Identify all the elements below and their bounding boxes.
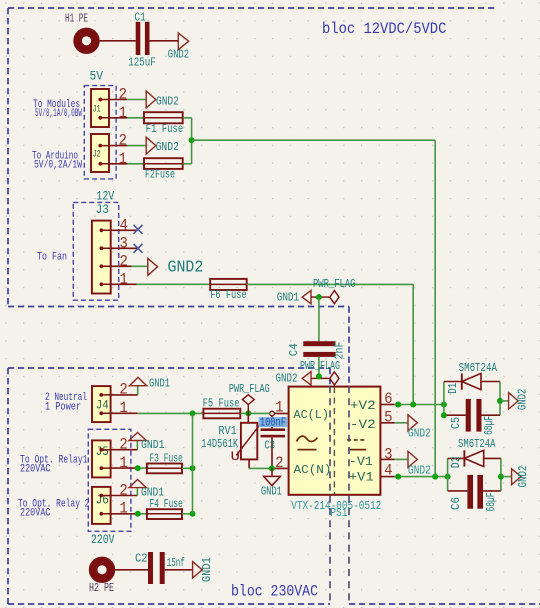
wire J5.1 to F3: [138, 467, 147, 469]
pin J2.2 stub: [109, 145, 127, 147]
svg-text:D1: D1: [447, 383, 460, 394]
global label GND2 (top): [168, 33, 189, 61]
pin J3.1 stub: [111, 283, 137, 285]
junction F1/F2: [189, 137, 195, 143]
dashed group box J3: [73, 202, 118, 300]
junction +V1/5V rail: [432, 474, 438, 480]
svg-text:C5: C5: [450, 417, 463, 429]
wire D2/C6 right rail: [500, 458, 502, 491]
svg-text:4: 4: [120, 216, 128, 234]
varistor RV1 14D561K: [201, 413, 260, 468]
junction right rail GND2 (D2): [498, 474, 504, 480]
wire pin3 to GND2: [395, 458, 408, 460]
wire J3.1 to F6: [137, 283, 211, 285]
wire F5 to PS1 pin1: [240, 412, 269, 414]
global label GND2 (D1/C5): [509, 389, 530, 411]
wire 5V to right: [192, 139, 436, 141]
power symbol GND1 (down triangle): [261, 468, 282, 498]
connector J4: [92, 386, 111, 422]
svg-text:C2: C2: [135, 551, 148, 565]
svg-text:125uF: 125uF: [128, 56, 156, 70]
svg-text:68µF: 68µF: [485, 492, 498, 511]
global label GND1 (node above C4): [277, 290, 319, 304]
junction +V1/D2 rail: [445, 474, 451, 480]
svg-text:+V1: +V1: [349, 470, 374, 485]
svg-text:1: 1: [119, 500, 127, 518]
no-connect X J3.3: [134, 244, 143, 253]
wire 5V rail vertical F1-F2: [191, 118, 193, 164]
bloc 12VDC/5VDC bottom edge right part: [349, 603, 540, 605]
svg-text:2: 2: [119, 86, 127, 104]
junction GND2/C4: [316, 373, 322, 379]
svg-text:3: 3: [120, 234, 128, 252]
svg-text:5V/0,1A/0,0BW: 5V/0,1A/0,0BW: [35, 108, 82, 120]
svg-text:C6: C6: [450, 497, 463, 510]
svg-text:6: 6: [384, 390, 392, 408]
pin PS1.2: [272, 467, 289, 469]
bloc 230VAC left edge: [7, 368, 9, 604]
pin J2.1 stub: [109, 163, 127, 165]
svg-text:J3: J3: [96, 202, 109, 217]
svg-text:220V: 220V: [91, 533, 115, 547]
bloc boundary horizontal y=306: [8, 306, 349, 308]
svg-text:H2 PE: H2 PE: [89, 582, 114, 595]
junction AC(N)/C3/GND1: [269, 465, 275, 471]
svg-text:1: 1: [119, 399, 127, 417]
junction GND1/C4: [316, 294, 322, 300]
svg-text:J5: J5: [96, 444, 109, 459]
svg-text:C1: C1: [134, 10, 145, 24]
wire GND1 node to C4: [318, 297, 320, 341]
wire F2 to rail: [183, 163, 192, 165]
wire +V1 net: [395, 476, 448, 478]
svg-text:GND1: GND1: [200, 557, 214, 582]
svg-text:2: 2: [119, 436, 127, 454]
global label GND2 (pin5): [408, 415, 431, 441]
svg-text:bloc 230VAC: bloc 230VAC: [231, 583, 318, 601]
dashed group box J1/J2: [84, 86, 116, 179]
junction J6.1: [135, 511, 141, 517]
no-connect X J3.4: [134, 225, 143, 234]
svg-text:AC(N): AC(N): [294, 463, 332, 477]
bloc 230VAC right edge x=330 (over PS1 body): [329, 386, 331, 604]
pin J1.1 stub: [109, 117, 127, 119]
connector J1: [91, 89, 109, 127]
global label GND2 (pin3): [408, 451, 431, 477]
svg-text:SM6T24A: SM6T24A: [458, 438, 496, 451]
mounting hole H1: [65, 13, 95, 50]
capacitor C4 2nF: [287, 341, 347, 359]
wire F4 to L rail: [182, 513, 193, 515]
fuse F1: [144, 112, 183, 136]
global label GND1 (H2, rotated): [193, 557, 215, 582]
wire +V2 net: [395, 404, 444, 406]
svg-text:To Fan: To Fan: [37, 251, 67, 263]
wire C2 to GND1: [165, 569, 193, 571]
global label GND2 (J1 pin2): [146, 91, 179, 108]
svg-text:-V2: -V2: [350, 417, 376, 432]
svg-text:PS1: PS1: [330, 507, 347, 520]
svg-text:100nF: 100nF: [260, 415, 286, 429]
pin J5.2 stub: [111, 449, 138, 451]
pin PS1.5: [380, 422, 394, 424]
pin PS1.1 with end circle: [270, 411, 289, 416]
svg-text:GND2: GND2: [408, 427, 431, 440]
svg-text:GND1: GND1: [149, 376, 170, 390]
svg-text:GND1: GND1: [261, 484, 282, 498]
wire rail to GND2 (D2): [501, 476, 512, 478]
svg-text:2: 2: [119, 481, 127, 499]
svg-text:H1 PE: H1 PE: [65, 13, 88, 26]
junction F4 / L rail: [190, 511, 196, 517]
bloc 230VAC top edge: [8, 367, 330, 369]
TVS diode D2 SM6T24A: [448, 438, 501, 491]
global label GND1 (J5 pin2, up): [129, 432, 165, 452]
svg-text:GND2: GND2: [168, 259, 204, 278]
svg-text:2: 2: [119, 132, 127, 150]
junction right rail GND2: [497, 398, 503, 404]
svg-text:GND1: GND1: [141, 438, 165, 452]
dashed group box J5/J6: [88, 429, 131, 531]
capacitor C3 leads: [271, 416, 273, 469]
svg-text:F4 Fuse: F4 Fuse: [149, 497, 182, 511]
connector J5: [92, 440, 111, 477]
wire D1/C5 right rail: [499, 382, 501, 416]
wire RV1 to AC(N): [249, 467, 272, 469]
svg-text:68µF: 68µF: [483, 416, 496, 435]
svg-text:+V2: +V2: [350, 398, 376, 413]
wire 12V rail down to +V2: [412, 284, 414, 404]
svg-text:SM6T24A: SM6T24A: [459, 362, 497, 375]
wire F6 to 12V rail corner: [247, 283, 414, 285]
wire H2 to C2: [115, 569, 148, 571]
svg-text:3: 3: [384, 445, 392, 463]
connector J2: [91, 134, 109, 172]
wire J6.1 to F4: [138, 513, 147, 515]
bloc 230VAC right edge x=330 (upper part): [329, 368, 331, 386]
TVS diode D1 SM6T24A: [444, 362, 500, 415]
svg-text:F3 Fuse: F3 Fuse: [149, 452, 182, 466]
junction F5/RV1/PWR_FLAG: [245, 410, 251, 416]
connector J6: [92, 487, 111, 524]
wire 5V rail down to +V1: [434, 140, 436, 476]
svg-text:220VAC: 220VAC: [20, 507, 51, 519]
AC symbol squiggle: [297, 436, 318, 441]
svg-text:J2: J2: [93, 148, 101, 160]
capacitor C2 15nf: [135, 551, 185, 584]
PS1 isolation dashed line (symbol): [333, 387, 335, 495]
svg-text:PWR_FLAG: PWR_FLAG: [300, 360, 340, 373]
wire J4.2 to GND1: [137, 386, 139, 395]
svg-text:-V1: -V1: [349, 454, 373, 469]
wire F1 to rail: [183, 117, 192, 119]
svg-text:1: 1: [119, 104, 127, 122]
svg-text:2: 2: [119, 381, 127, 399]
pin PS1.4: [380, 476, 394, 478]
junction +V2/12V rail: [410, 402, 416, 408]
svg-text:220VAC: 220VAC: [20, 463, 51, 475]
wire C1 to GND2 label: [149, 40, 178, 42]
svg-text:U: U: [231, 449, 241, 464]
pin J3.4 stub: [111, 229, 137, 231]
power flag PWR_FLAG (GND2 node): [300, 360, 340, 385]
svg-text:C3: C3: [265, 438, 276, 452]
connector J3: [92, 202, 111, 293]
global label GND1 (J4 pin2, up): [129, 376, 170, 390]
fuse F4: [147, 497, 183, 519]
junction J4.1 / L rail: [190, 410, 196, 416]
fuse F3: [147, 452, 183, 474]
pin PS1.6: [380, 404, 394, 406]
wire J6.2 to GND1: [136, 488, 138, 496]
pin J4.1 stub: [111, 412, 138, 414]
wire L rail vertical: [192, 413, 194, 513]
wire pin5 to GND2: [395, 422, 408, 424]
svg-text:RV1: RV1: [218, 424, 236, 438]
wire H1 to C1: [99, 40, 135, 42]
global label GND2 (node below C4): [276, 372, 319, 386]
svg-text:5V/0,2A/1W: 5V/0,2A/1W: [34, 159, 82, 171]
svg-text:GND1: GND1: [277, 290, 300, 304]
pin J5.1 stub: [111, 467, 138, 469]
svg-text:GND2: GND2: [516, 466, 530, 488]
svg-text:2nF: 2nF: [333, 342, 347, 360]
svg-text:2: 2: [275, 454, 283, 472]
pin J1.2 stub: [109, 99, 127, 101]
pin J6.2 stub: [111, 495, 138, 497]
pin J4.2 stub: [111, 394, 138, 396]
wire J2.2 to GND2: [127, 145, 146, 147]
power flag PWR_FLAG (AC L): [229, 383, 270, 413]
pin PS1.3: [380, 458, 394, 460]
svg-text:F6 Fuse: F6 Fuse: [210, 288, 247, 302]
svg-text:15nf: 15nf: [167, 556, 185, 570]
svg-text:GND2: GND2: [156, 94, 179, 108]
wire J2.1 to F2: [127, 163, 144, 165]
bloc 12VDC/5VDC inner edge x=349 (upper part): [348, 307, 350, 387]
svg-text:5V: 5V: [90, 70, 104, 84]
junction +V1 at pin4: [395, 474, 401, 480]
svg-text:1: 1: [119, 150, 127, 168]
svg-text:GND2: GND2: [515, 389, 529, 411]
bloc 230VAC bottom edge: [8, 603, 330, 605]
svg-text:1 Power: 1 Power: [45, 401, 81, 413]
fuse F2: [144, 158, 183, 181]
svg-text:1: 1: [120, 270, 128, 288]
capacitor C6 68uF: [448, 475, 501, 512]
junction D1 rail / C5: [441, 412, 447, 418]
svg-text:5: 5: [384, 409, 392, 427]
svg-text:GND2: GND2: [408, 464, 431, 477]
global label GND2 (J3 pin2, large): [148, 258, 204, 277]
svg-text:2: 2: [120, 252, 128, 270]
mounting hole H2: [89, 561, 114, 595]
wire J3.2 to GND2: [132, 265, 148, 267]
junction F3 / L rail: [190, 465, 196, 471]
bloc 12VDC/5VDC inner edge x=349 (over PS1 body): [348, 386, 350, 604]
wire J4.1 to F5: [138, 412, 204, 414]
svg-text:GND2: GND2: [156, 140, 179, 154]
fuse F6: [210, 279, 247, 302]
svg-text:PWR_FLAG: PWR_FLAG: [313, 278, 356, 291]
svg-text:AC(L): AC(L): [294, 408, 329, 422]
wire C4 to GND2 node: [318, 357, 320, 377]
svg-text:14D561K: 14D561K: [201, 437, 238, 451]
capacitor C3 100nF: [259, 415, 287, 452]
svg-text:bloc 12VDC/5VDC: bloc 12VDC/5VDC: [322, 20, 446, 38]
DC symbol dashed/solid: [347, 439, 366, 441]
svg-text:J4: J4: [96, 398, 109, 413]
fuse F5: [203, 396, 241, 418]
pin J3.3 stub: [111, 247, 137, 249]
svg-text:C4: C4: [287, 343, 301, 356]
global label GND2 (D2/C6): [512, 466, 530, 488]
pin J6.1 stub: [111, 513, 138, 515]
global label GND2 (J2 pin2): [146, 137, 179, 154]
global label GND1 (J6 pin2, up): [129, 480, 164, 500]
svg-text:GND2: GND2: [276, 372, 298, 386]
wire J5.2 to GND1: [136, 441, 138, 450]
bloc 12VDC/5VDC outline top edge: [8, 7, 498, 9]
svg-text:J1: J1: [93, 104, 101, 116]
svg-text:PWR_FLAG: PWR_FLAG: [229, 383, 270, 396]
wire J1.1 to F1: [127, 117, 144, 119]
junction +V2 at pin6: [395, 402, 401, 408]
bloc outline left edge: [7, 8, 9, 307]
svg-text:F1 Fuse: F1 Fuse: [146, 122, 184, 136]
junction +V2/D1 rail: [441, 402, 447, 408]
wire rail to GND2: [500, 400, 509, 402]
wire J1.2 to GND2: [127, 99, 146, 101]
svg-text:F2Fuse: F2Fuse: [145, 167, 175, 181]
svg-text:F5 Fuse: F5 Fuse: [203, 396, 240, 410]
junction J5.1: [135, 465, 141, 471]
svg-text:D2: D2: [450, 456, 463, 468]
svg-text:GND2: GND2: [168, 47, 189, 61]
power module PS1 VTX-214-005-0512: [289, 387, 381, 495]
capacitor C5 68uF: [444, 399, 500, 435]
power flag PWR_FLAG (GND1 node): [313, 278, 356, 304]
svg-text:1: 1: [119, 454, 127, 472]
wire F3 to L rail: [182, 467, 193, 469]
capacitor C1 125uF: [128, 10, 156, 69]
pin J3.2 stub: [111, 265, 132, 267]
